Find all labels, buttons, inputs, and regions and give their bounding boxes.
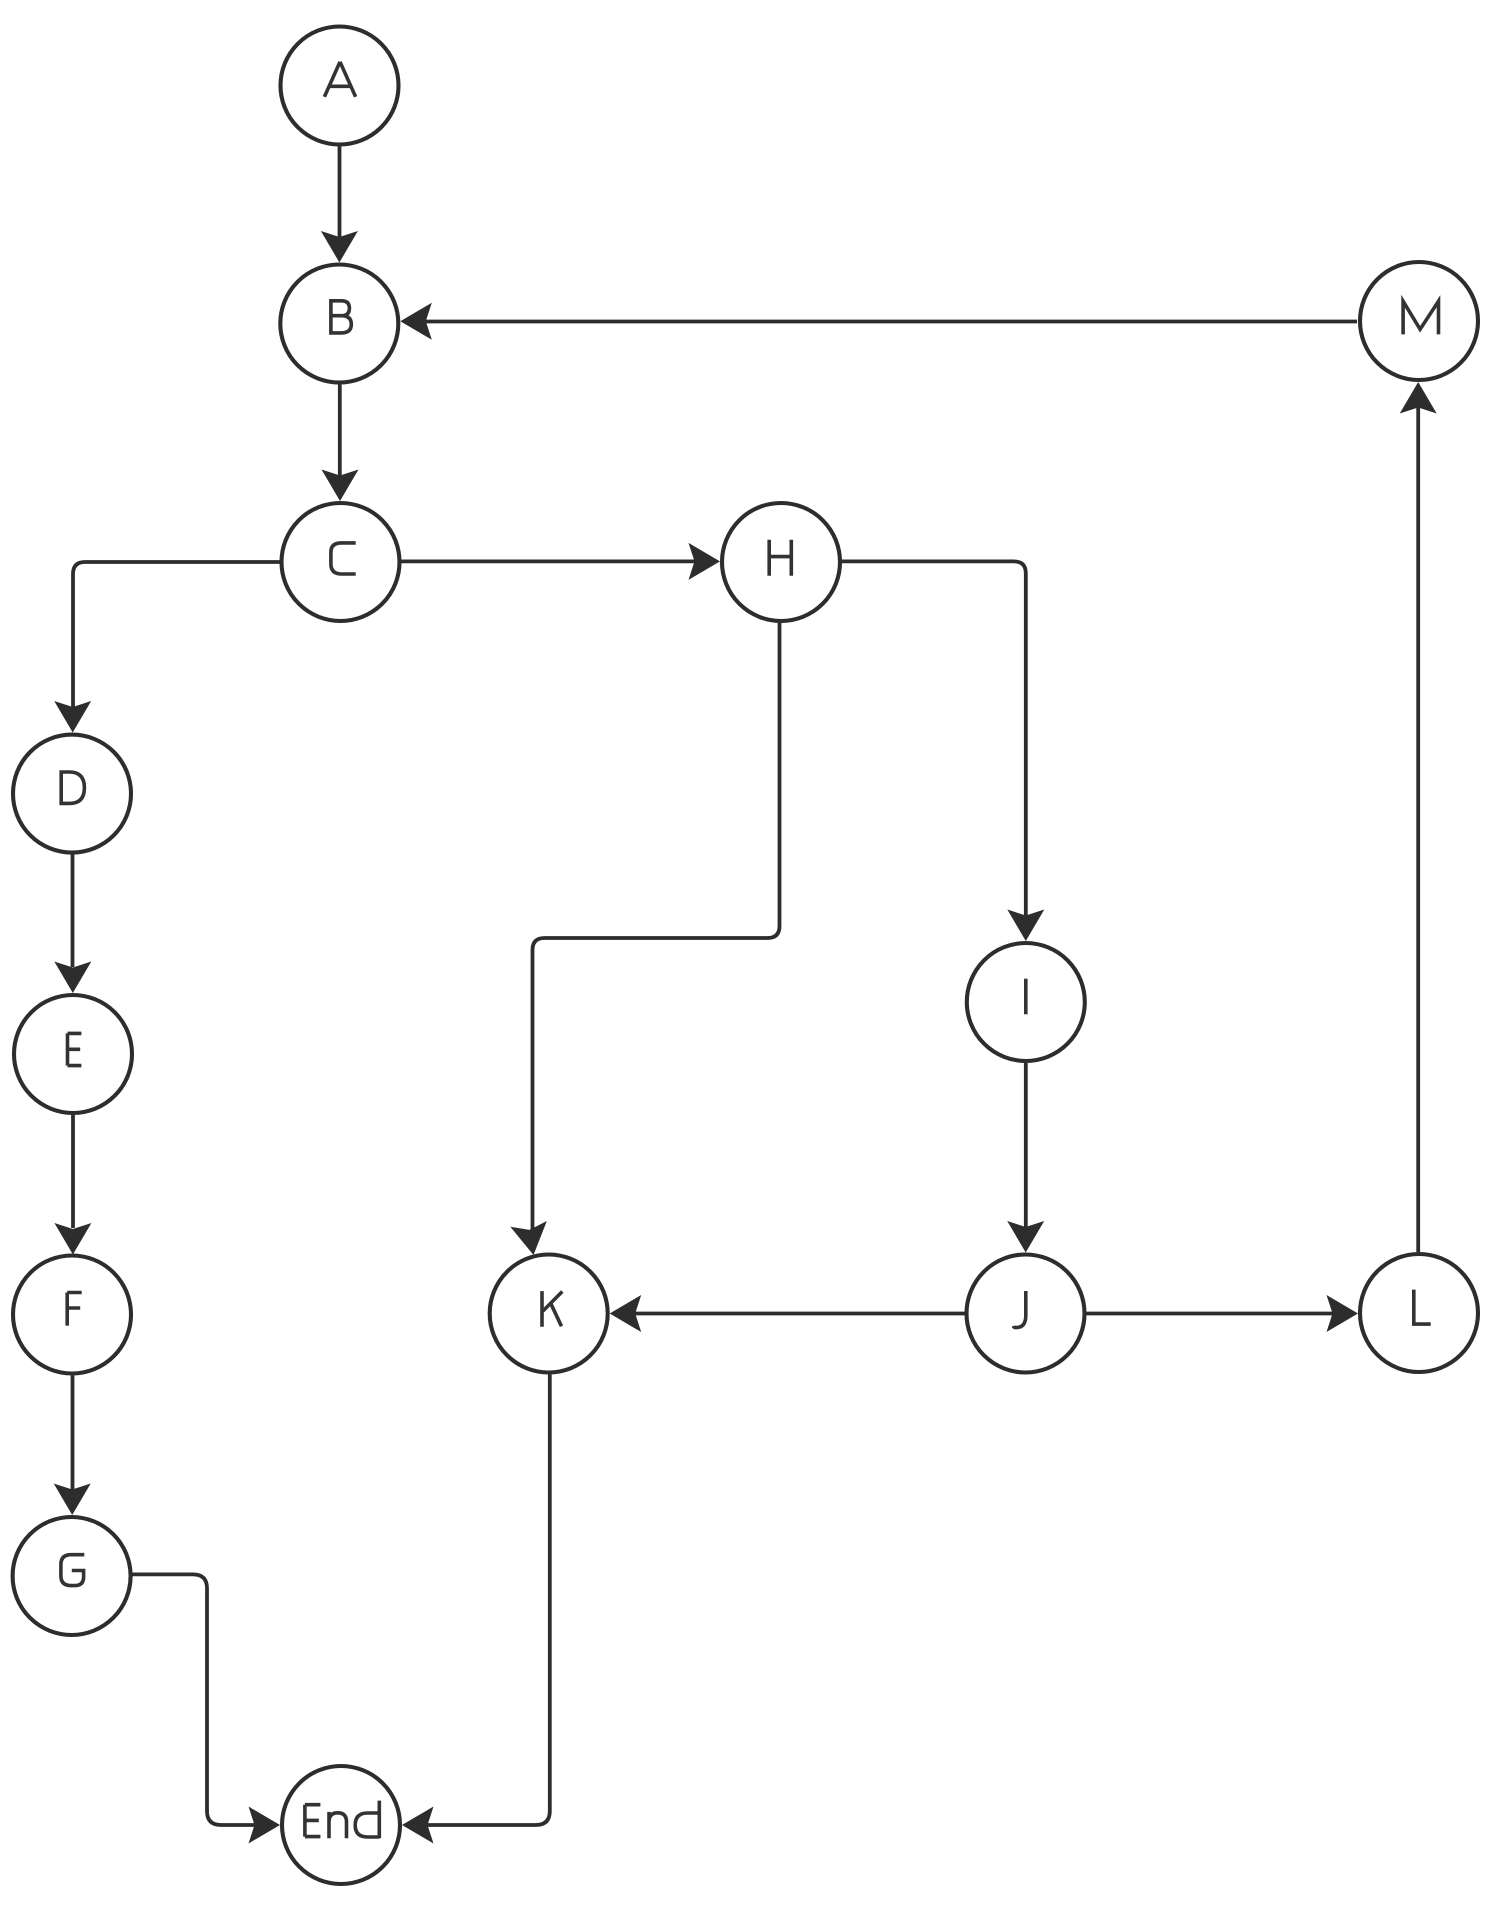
label End bbox=[305, 1801, 379, 1839]
label K bbox=[542, 1291, 562, 1327]
label D bbox=[59, 772, 84, 803]
wire C to H bbox=[402, 560, 696, 564]
wire E to F bbox=[71, 1115, 75, 1228]
arrowhead into K from J bbox=[610, 1295, 642, 1332]
node J bbox=[967, 1255, 1085, 1373]
wire B to C bbox=[338, 385, 342, 477]
label G bbox=[61, 1555, 84, 1586]
label I bbox=[1024, 979, 1028, 1015]
label C bbox=[331, 543, 356, 574]
node M bbox=[1360, 262, 1478, 380]
node I bbox=[967, 943, 1085, 1061]
arrowhead into End from G bbox=[249, 1807, 281, 1844]
wire F to G bbox=[71, 1376, 75, 1491]
arrowhead into K from H bbox=[510, 1221, 551, 1258]
node End bbox=[282, 1766, 400, 1884]
node E bbox=[14, 995, 132, 1113]
arrowhead into B from A bbox=[321, 231, 358, 263]
wire G to End bbox=[133, 1574, 256, 1825]
node L bbox=[1360, 1254, 1478, 1372]
arrowhead into E bbox=[54, 962, 91, 994]
arrowhead into B from M bbox=[400, 303, 432, 340]
wire D to E bbox=[71, 855, 75, 968]
arrowhead into C bbox=[322, 470, 359, 502]
node A bbox=[281, 27, 399, 145]
label J bbox=[1013, 1291, 1026, 1328]
label A bbox=[324, 62, 355, 97]
arrowhead into M bbox=[1400, 382, 1437, 414]
node G bbox=[13, 1517, 131, 1635]
wire H to I bbox=[842, 561, 1026, 916]
arrowhead into H bbox=[689, 543, 721, 580]
arrowhead into I bbox=[1007, 910, 1044, 942]
node C bbox=[282, 503, 400, 621]
node B bbox=[280, 265, 398, 383]
arrowhead into J bbox=[1007, 1221, 1044, 1253]
arrowhead into L bbox=[1327, 1295, 1359, 1332]
label M bbox=[1403, 301, 1438, 334]
node F bbox=[13, 1256, 131, 1374]
label H bbox=[769, 540, 791, 576]
wire J to L bbox=[1087, 1312, 1334, 1316]
arrowhead into D bbox=[54, 701, 91, 733]
label E bbox=[68, 1033, 82, 1065]
node D bbox=[13, 735, 131, 853]
label F bbox=[67, 1293, 82, 1326]
label L bbox=[1414, 1290, 1431, 1325]
wire A to B bbox=[338, 147, 342, 238]
wire M to B bbox=[425, 320, 1357, 324]
arrowhead into G bbox=[54, 1484, 91, 1516]
wire K to End bbox=[427, 1375, 550, 1826]
arrowhead into F bbox=[54, 1223, 91, 1255]
wire H to K bbox=[533, 623, 780, 1230]
wire J to K bbox=[635, 1312, 965, 1316]
node H bbox=[722, 503, 840, 621]
wire L to M bbox=[1416, 407, 1420, 1252]
wire C to D bbox=[73, 562, 280, 708]
arrowhead into End from K bbox=[402, 1807, 434, 1844]
node K bbox=[490, 1255, 608, 1373]
wire I to J bbox=[1024, 1063, 1028, 1228]
label B bbox=[329, 301, 351, 333]
